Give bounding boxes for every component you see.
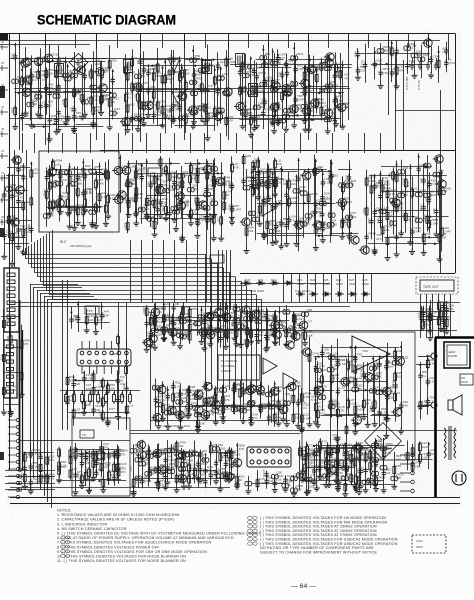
wire drop	[197, 240, 199, 302]
node junction	[331, 162, 333, 164]
wire fan 3	[5, 489, 55, 491]
wire	[181, 64, 183, 129]
ground	[407, 239, 413, 245]
capacitor C158	[148, 217, 155, 222]
capacitor C99	[356, 51, 360, 59]
wire drop	[307, 273, 309, 302]
capacitor C101	[363, 61, 367, 69]
wire	[446, 42, 448, 73]
wire interconnect 13	[204, 133, 206, 153]
svg-text:J7: J7	[1, 171, 4, 175]
ground	[47, 136, 53, 142]
node junction	[262, 49, 264, 51]
wire	[264, 56, 266, 110]
wire interconnect 17	[268, 133, 270, 153]
capacitor C43	[27, 102, 34, 107]
resistor R40	[65, 392, 68, 404]
capacitor C91	[307, 67, 311, 75]
resistor R76	[7, 214, 10, 226]
wire	[136, 160, 138, 223]
wire	[251, 170, 253, 226]
wire	[309, 55, 311, 128]
wire	[182, 173, 184, 237]
ground	[407, 239, 413, 245]
transistor Q12	[234, 102, 244, 110]
wire rail	[304, 203, 332, 205]
wire bus drop 0	[205, 254, 207, 390]
resistor R153	[381, 182, 384, 194]
wire	[258, 157, 260, 195]
wire	[4, 174, 6, 255]
capacitor C235	[378, 178, 382, 186]
capacitor C2	[12, 79, 19, 84]
ground	[20, 249, 26, 255]
wire rail	[91, 92, 112, 94]
wire	[31, 55, 33, 125]
capacitor C183	[296, 175, 300, 183]
resistor R171	[3, 318, 6, 330]
wire bus drop	[218, 250, 220, 310]
wire	[340, 53, 342, 128]
node pin	[8, 481, 20, 484]
wire interconnect 9	[146, 133, 148, 153]
resistor R63	[339, 68, 342, 80]
resistor R39	[101, 93, 104, 105]
ground	[255, 194, 261, 200]
transistor Q13	[116, 191, 126, 199]
wire rail	[1, 316, 20, 318]
node junction	[165, 170, 167, 172]
capacitor C70	[410, 62, 414, 70]
capacitor C121	[16, 166, 20, 174]
wire rail	[302, 67, 351, 69]
wire	[440, 306, 442, 327]
ground	[340, 123, 346, 129]
wire rail	[76, 124, 98, 126]
wire	[275, 171, 277, 240]
wire drop	[299, 273, 301, 302]
wire	[286, 180, 288, 242]
resistor R82	[67, 197, 70, 209]
wire rail	[330, 233, 359, 235]
capacitor C61	[152, 111, 156, 119]
transistor Q17	[240, 218, 250, 226]
capacitor C23	[198, 106, 205, 111]
capacitor C18	[171, 102, 175, 110]
capacitor C10	[90, 85, 97, 90]
wire	[190, 162, 192, 221]
node junction	[43, 126, 45, 128]
node junction	[77, 90, 79, 92]
wire	[410, 164, 412, 242]
node pin circle	[18, 468, 21, 471]
capacitor C164	[179, 198, 183, 206]
ground	[294, 240, 300, 246]
resistor R47	[161, 104, 164, 116]
wire	[342, 176, 344, 234]
ground	[72, 224, 78, 230]
capacitor C85	[285, 69, 289, 77]
wire rail	[179, 91, 216, 93]
wire	[305, 65, 307, 127]
connector pin	[7, 287, 15, 291]
wire	[374, 176, 376, 250]
capacitor C68	[202, 67, 209, 72]
resistor R143	[348, 218, 351, 230]
node junction	[73, 69, 75, 71]
box TP6	[85, 306, 99, 314]
wire	[46, 234, 48, 290]
ground	[333, 121, 339, 127]
wire rail	[4, 404, 20, 406]
wire	[412, 58, 414, 62]
resistor R161	[386, 235, 389, 247]
wire drop	[283, 273, 285, 302]
node junction	[304, 68, 306, 70]
capacitor C149	[204, 186, 208, 194]
svg-text:J6: J6	[1, 215, 4, 219]
connector pin	[7, 345, 14, 348]
wire	[65, 57, 67, 120]
capacitor C130	[72, 205, 76, 213]
resistor R9	[108, 97, 111, 109]
wire rail	[247, 177, 278, 179]
resistor R86	[107, 193, 110, 205]
wire	[240, 283, 330, 285]
connector pin	[7, 315, 15, 319]
resistor R73	[22, 227, 25, 239]
resistor R137	[258, 204, 261, 216]
wire	[99, 163, 101, 213]
ground	[195, 220, 201, 226]
wire	[259, 170, 261, 221]
node junction	[396, 163, 398, 165]
ground	[90, 122, 96, 128]
resistor R155	[392, 170, 395, 182]
capacitor C81	[271, 61, 278, 66]
ground	[170, 115, 176, 121]
capacitor C162	[173, 210, 180, 215]
node junction	[179, 60, 181, 62]
wire	[114, 390, 116, 394]
wire rail	[140, 218, 214, 220]
wire rail	[305, 171, 332, 173]
node junction	[140, 90, 142, 92]
node pin circle	[18, 481, 21, 484]
wire	[140, 34, 142, 49]
ground	[218, 235, 224, 241]
node junction	[434, 243, 436, 245]
resistor R115	[126, 177, 129, 189]
capacitor C139	[83, 172, 87, 180]
wire	[255, 166, 257, 240]
wire rail	[40, 61, 76, 63]
capacitor C108	[405, 62, 409, 70]
capacitor C49	[62, 73, 69, 78]
wire bus corner 0	[30, 284, 78, 286]
wire	[231, 156, 233, 220]
capacitor C131	[81, 166, 85, 174]
capacitor C234	[369, 218, 373, 226]
wire	[228, 34, 230, 141]
capacitor C6	[47, 116, 51, 124]
wire rail	[174, 125, 215, 127]
crystal filter CF1	[168, 58, 180, 72]
capacitor C132	[81, 189, 85, 197]
resistor R5	[81, 92, 84, 104]
resistor R117	[134, 168, 137, 180]
node junction	[272, 173, 274, 175]
capacitor C199	[293, 189, 300, 194]
wire	[77, 166, 79, 220]
resistor R48	[129, 392, 132, 404]
wire	[67, 280, 69, 430]
node junction	[175, 88, 177, 90]
resistor R131	[288, 178, 291, 190]
node junction	[220, 68, 222, 70]
wire rail	[147, 195, 167, 197]
wire	[31, 244, 33, 268]
wire	[366, 170, 368, 253]
resistor R96	[95, 202, 98, 214]
resistor R14	[139, 99, 142, 111]
wire	[274, 158, 276, 193]
wire	[148, 64, 150, 112]
capacitor C189	[339, 183, 346, 188]
wire rail	[425, 216, 448, 218]
capacitor C173	[243, 186, 250, 191]
capacitor C201	[300, 191, 307, 196]
node pin	[8, 467, 20, 470]
node junction	[22, 166, 24, 168]
wire	[56, 66, 58, 130]
wire	[308, 168, 310, 223]
capacitor C97	[333, 115, 337, 123]
capacitor C190	[347, 174, 351, 182]
diode D3	[270, 281, 279, 285]
node junction	[328, 170, 330, 172]
wire	[140, 53, 142, 118]
resistor R30	[21, 75, 24, 87]
node pin	[8, 439, 20, 442]
wire rail	[385, 237, 441, 239]
resistor R81	[67, 184, 70, 196]
resistor R104	[153, 219, 156, 231]
ground	[240, 123, 246, 129]
capacitor C116	[2, 232, 6, 240]
node junction	[173, 176, 175, 178]
capacitor C225	[398, 193, 405, 198]
wire rail	[383, 191, 442, 193]
capacitor C5	[47, 90, 51, 98]
wire	[221, 162, 223, 236]
resistor R70	[445, 317, 448, 329]
capacitor C167	[205, 217, 209, 225]
transformer T3	[203, 61, 212, 74]
wire interconnect 12	[190, 133, 192, 153]
node junction	[391, 42, 393, 44]
wire drop	[363, 273, 365, 302]
connector pin	[7, 368, 14, 371]
ground	[378, 83, 384, 89]
capacitor C175	[252, 217, 259, 222]
resistor R45	[152, 89, 155, 101]
node junction	[201, 59, 203, 61]
capacitor C226	[417, 165, 421, 173]
resistor R42	[137, 91, 140, 103]
wire	[396, 40, 398, 84]
wire drop	[371, 273, 373, 302]
node junction	[38, 90, 40, 92]
node junction	[37, 64, 39, 66]
wire	[108, 160, 110, 215]
capacitor C78	[261, 63, 268, 68]
wire	[18, 158, 20, 245]
wire bus line 4	[34, 272, 229, 274]
ground	[319, 219, 325, 225]
wire	[117, 34, 119, 49]
op-amp U1	[262, 200, 276, 216]
wire	[281, 166, 283, 246]
wire	[10, 118, 340, 120]
wire	[243, 154, 245, 190]
svg-text:11. ( ) THIS SYMBOL DENOTES VO: 11. ( ) THIS SYMBOL DENOTES VOLTAGES FOR…	[57, 559, 186, 563]
capacitor C47	[53, 94, 60, 99]
wire	[49, 45, 51, 137]
capacitor C82	[271, 87, 278, 92]
node terminal	[0, 175, 8, 181]
resistor R110	[196, 196, 199, 208]
capacitor C147	[171, 206, 178, 211]
capacitor C177	[262, 197, 266, 205]
resistor R100	[135, 186, 138, 198]
wire	[197, 159, 199, 221]
wire	[85, 173, 87, 208]
resistor R145	[252, 160, 255, 172]
transistor Q16	[299, 79, 309, 87]
ground	[71, 128, 77, 134]
ground	[254, 123, 260, 129]
wire left border	[9, 34, 11, 471]
capacitor C48	[54, 117, 58, 125]
transistor Q6	[94, 68, 104, 76]
wire	[173, 50, 175, 118]
node junction	[213, 163, 215, 165]
node junction	[350, 232, 352, 234]
capacitor C73	[240, 110, 244, 118]
connector pin	[7, 301, 15, 305]
wire	[82, 390, 84, 394]
wire	[240, 65, 242, 115]
capacitor C212	[346, 183, 353, 188]
resistor R102	[153, 174, 156, 186]
node junction	[429, 216, 431, 218]
ground	[270, 118, 276, 124]
transistor Q11	[46, 168, 56, 176]
resistor R46	[161, 73, 164, 85]
wire bus drop	[230, 250, 232, 310]
capacitor C56	[109, 93, 116, 98]
ground	[19, 392, 25, 398]
capacitor C128	[65, 171, 72, 176]
wire	[426, 294, 428, 338]
ground	[135, 126, 141, 132]
ground	[1, 409, 7, 415]
capacitor C237	[378, 217, 382, 225]
capacitor C187	[320, 211, 324, 219]
capacitor C214	[251, 175, 255, 183]
resistor R29	[335, 96, 338, 108]
wire	[206, 159, 208, 215]
transistor Q12c	[9, 218, 19, 226]
wire	[38, 60, 40, 113]
resistor R67	[420, 310, 423, 322]
wire	[143, 51, 145, 121]
transistor Q2	[20, 88, 30, 96]
resistor R4	[73, 87, 76, 99]
wire	[288, 34, 290, 49]
wire	[423, 164, 425, 251]
resistor R87	[48, 180, 51, 192]
svg-text:SUBJECT TO CHANGE FOR IMPROVEM: SUBJECT TO CHANGE FOR IMPROVEMENT WITHOU…	[260, 550, 377, 554]
node junction	[193, 72, 195, 74]
wire	[444, 294, 446, 338]
node junction	[65, 123, 67, 125]
wire	[19, 34, 21, 151]
capacitor C150	[203, 206, 210, 211]
resistor R62	[315, 97, 318, 109]
capacitor C40	[319, 86, 323, 94]
edge blob 2	[0, 228, 4, 237]
node junction	[162, 67, 164, 69]
wire drop	[174, 240, 176, 302]
capacitor C110	[418, 57, 425, 62]
capacitor C154	[140, 174, 144, 182]
resistor R27	[320, 105, 323, 117]
wire	[214, 158, 216, 213]
wire	[303, 179, 305, 238]
wire rail	[256, 59, 284, 61]
svg-text:10. ( ) THIS SYMBOL DENOTES VO: 10. ( ) THIS SYMBOL DENOTES VOLTAGES FOR…	[57, 555, 186, 559]
node junction	[388, 174, 390, 176]
wire	[201, 58, 203, 117]
wire	[440, 90, 442, 273]
capacitor C33	[261, 109, 265, 117]
node junction	[123, 124, 125, 126]
node pin circle	[18, 488, 21, 491]
resistor R112	[212, 214, 215, 226]
wire bus drop 10	[261, 299, 263, 390]
capacitor C46	[44, 102, 48, 110]
resistor R165	[404, 211, 407, 223]
wire bus corner 4	[44, 296, 94, 298]
wire	[190, 168, 192, 215]
wire	[140, 34, 142, 143]
svg-text:J3: J3	[1, 149, 4, 153]
svg-text:C16: C16	[0, 354, 3, 360]
wire	[3, 309, 5, 410]
node terminal	[0, 65, 8, 71]
capacitor C74	[248, 65, 255, 70]
wire	[58, 45, 60, 127]
wire	[421, 306, 423, 331]
ground	[15, 244, 21, 250]
node junction	[286, 67, 288, 69]
transistor Q21	[322, 109, 332, 117]
resistor R49	[184, 80, 187, 92]
resistor R85	[107, 169, 110, 181]
resistor R163	[395, 202, 398, 214]
